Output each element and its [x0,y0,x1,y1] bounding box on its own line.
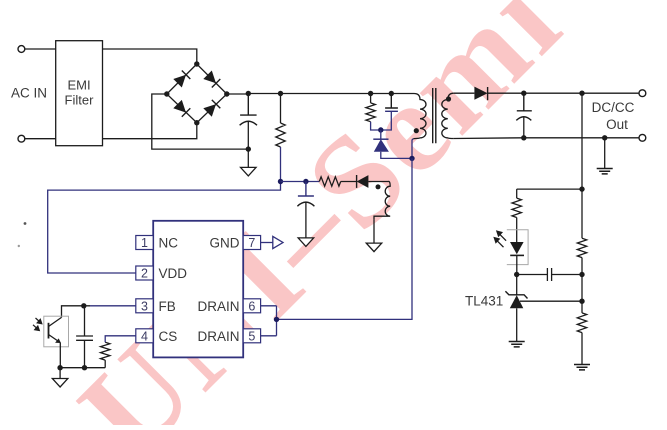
node TL431 cathode junction [514,272,519,277]
bridge rectifier D1-D4 [164,61,229,125]
diode D5 aux rectifier [357,175,389,188]
wire secondary top [454,92,475,94]
wire TL431 reference [520,300,582,302]
capacitor C4 output [516,93,532,138]
node VDD junction [278,179,283,184]
node output cap top [521,91,526,96]
svg-text:DC/CC: DC/CC [592,100,635,115]
EMI filter block [56,41,103,146]
pin 2 VDD [136,266,187,281]
node drain pin junction [274,317,279,322]
pin 7 GND [210,236,261,251]
ground VDD cap [298,238,314,247]
wire drain to IC pins 5/6 [261,158,412,335]
capacitor C6 FB filter [76,306,93,368]
node C1 bottom junction [246,146,251,151]
capacitor C5 feedback [517,268,582,281]
stray mark [24,222,27,225]
capacitor C3 snubber [385,91,398,112]
wire [25,138,56,140]
wire bridge negative return [152,94,249,149]
ground aux winding [366,220,382,252]
node divider REF junction [579,299,584,304]
node VDD cap junction [303,179,308,184]
transformer T1 core [433,88,436,143]
capacitor C1 bulk electrolytic [240,94,257,150]
svg-text:DRAIN: DRAIN [197,299,239,314]
pin 3 FB [136,299,176,314]
wire [25,48,56,50]
resistor R4 LED series [512,189,521,242]
node sense junction [579,186,584,191]
svg-text:Out: Out [606,117,628,132]
transformer T1 primary winding [413,94,426,139]
transformer T1 secondary winding [442,93,454,138]
ground GND pin arrow [261,236,283,248]
inductor L1 aux winding [374,181,390,219]
wire [103,49,197,64]
wire output sense [517,93,582,189]
node sense junction top [579,91,584,96]
node AC input top terminal [18,46,25,53]
wire drain node [412,139,413,159]
svg-text:CS: CS [159,329,178,344]
node cap bottom junction [82,365,87,370]
optocoupler LED box [507,230,528,265]
svg-text:TL431: TL431 [465,294,503,309]
node DC out - terminal [639,134,646,141]
svg-text:EMI: EMI [67,78,90,93]
resistor R7 CS [100,342,109,368]
svg-text:2: 2 [141,267,148,281]
wire CS to pin 4 [105,336,136,342]
diode D6 clamp [373,130,412,158]
wire DC bus [227,93,414,96]
node AC input bottom terminal [18,135,25,142]
stray mark [18,245,20,247]
svg-text:4: 4 [141,330,148,344]
wire FB to optocoupler [90,305,136,307]
svg-text:GND: GND [210,236,240,251]
wire snubber join [371,111,392,130]
node output cap bottom [521,135,526,140]
wire [341,181,357,183]
label DC/CC Out [592,100,635,132]
op-amp U1 controller IC body [153,221,243,358]
svg-text:7: 7 [248,236,255,250]
ground divider [574,365,590,370]
LED emission arrows [494,231,506,247]
node opto collector junction [81,303,86,308]
ground primary (bulk cap) [241,149,256,176]
wire [62,306,91,318]
wire emitter bottom [60,367,105,369]
svg-text:Filter: Filter [65,93,95,108]
pin 5 DRAIN [197,329,260,344]
resistor R2 VDD series [319,177,340,186]
wire [281,181,320,183]
diode LED optocoupler [510,242,524,275]
shunt regulator U2 TL431 [505,275,527,342]
wire [103,123,197,139]
pin 4 CS [136,329,177,344]
pin 6 DRAIN [197,299,260,314]
node divider cap junction [579,272,584,277]
node snubber junction [378,127,383,132]
svg-text:6: 6 [248,300,255,314]
resistor R6 divider lower [577,301,586,364]
resistor R5 divider upper [577,189,586,301]
resistor R3 snubber [366,91,375,122]
optocoupler box [44,316,69,347]
wire secondary bottom [454,137,639,140]
svg-text:5: 5 [248,330,255,344]
node DC out + terminal [639,90,646,97]
node bus junction [246,91,251,96]
node secondary polarity dot [446,96,451,101]
wire VDD supply loop to pin 2 [48,182,281,274]
svg-text:AC IN: AC IN [11,86,47,101]
svg-text:1: 1 [141,236,148,250]
wire [488,92,639,94]
svg-text:FB: FB [159,299,176,314]
node aux winding polarity dot [376,184,381,189]
svg-text:DRAIN: DRAIN [197,329,239,344]
opto light arrows [33,318,42,331]
ground secondary output [597,138,613,174]
svg-text:3: 3 [141,300,148,314]
node output ground junction [602,135,607,140]
resistor R1 startup [276,91,285,182]
svg-text:VDD: VDD [159,266,188,281]
node primary polarity dot [414,128,419,133]
ground TL431 [509,342,525,347]
diode D7 output rectifier [474,87,487,101]
transistor Q1 optocoupler [49,317,62,367]
node drain junction [409,156,414,161]
pin 1 NC [136,236,178,251]
ground optocoupler [52,368,68,387]
node emitter junction [57,365,62,370]
svg-text:NC: NC [159,236,179,251]
capacitor C2 VDD [297,182,314,238]
